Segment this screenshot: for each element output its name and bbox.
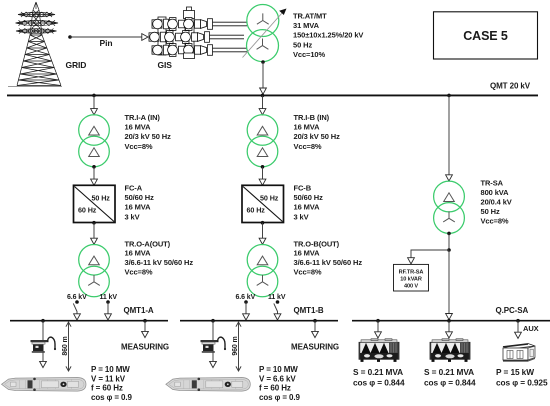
svg-text:60 Hz: 60 Hz (247, 206, 266, 215)
svg-text:cos φ = 0.844: cos φ = 0.844 (424, 378, 476, 388)
node 11 kV A (106, 300, 110, 304)
wire TR.I-B to FC-B (262, 167, 264, 180)
frequency converter FC-B (242, 185, 284, 222)
svg-text:Vcc=8%: Vcc=8% (481, 216, 509, 225)
bus QMT1-B (180, 320, 338, 322)
node TR.I-A out (92, 165, 96, 169)
node measuring A (143, 319, 147, 323)
transformer TR.I-B (247, 115, 278, 167)
switch 6.6 kV A open (73, 303, 77, 314)
wire measuring B (314, 321, 316, 332)
svg-text:MEASURING: MEASURING (291, 343, 339, 352)
ship load A (2, 378, 87, 392)
TR.O-A value label (125, 239, 194, 276)
node bus tap A (92, 94, 96, 98)
node FC-A out (92, 221, 96, 225)
svg-text:TR-SA: TR-SA (481, 178, 504, 187)
svg-text:Vcc=8%: Vcc=8% (125, 268, 153, 277)
svg-text:Vcc=8%: Vcc=8% (125, 142, 153, 151)
svg-text:Q.PC-SA: Q.PC-SA (496, 306, 529, 315)
svg-text:FC-B: FC-B (294, 184, 312, 193)
chiller 1 values (353, 367, 405, 388)
svg-text:16 MVA: 16 MVA (125, 123, 152, 132)
svg-text:20/3 kV 50 Hz: 20/3 kV 50 Hz (125, 132, 172, 141)
svg-text:16 MVA: 16 MVA (294, 123, 321, 132)
svg-text:GIS: GIS (158, 60, 173, 70)
node ship feeder A (41, 319, 45, 323)
node ship feeder B (211, 319, 215, 323)
transformer TR.AT/MT (243, 5, 287, 62)
TR.AT/MT value label (293, 12, 363, 60)
wire FC-A to TR.O-A (93, 223, 95, 239)
wire junction to RF.TR-SA (411, 250, 449, 259)
svg-text:3/6.6-11 kV 50/60 Hz: 3/6.6-11 kV 50/60 Hz (294, 258, 363, 267)
svg-text:TR.I-B (IN): TR.I-B (IN) (294, 113, 330, 122)
svg-text:CASE 5: CASE 5 (463, 29, 508, 43)
chiller 2 values (424, 367, 476, 388)
node 11 kV B (276, 300, 280, 304)
wire TR.AT/MT to bus (262, 62, 264, 89)
svg-text:GRID: GRID (66, 60, 87, 70)
svg-text:6.6 kV: 6.6 kV (236, 294, 256, 301)
svg-text:f = 60 Hz: f = 60 Hz (259, 384, 291, 393)
svg-text:50/60 Hz: 50/60 Hz (125, 193, 155, 202)
svg-text:16 MVA: 16 MVA (294, 249, 321, 258)
transformer TR.I-A (79, 115, 110, 167)
svg-text:P = 15 kW: P = 15 kW (496, 367, 534, 377)
bus QMT1-A (10, 320, 168, 322)
wire bus to ship B (212, 321, 214, 362)
transmission tower GRID (16, 2, 62, 86)
svg-text:800 kVA: 800 kVA (481, 188, 510, 197)
cable reel crane B (201, 337, 227, 353)
TR.O-B value label (294, 239, 363, 276)
svg-text:6.6 kV: 6.6 kV (67, 294, 87, 301)
dimension 960 m (232, 322, 241, 371)
svg-text:V = 6.6 kV: V = 6.6 kV (259, 374, 296, 383)
node bus tap B (261, 94, 265, 98)
svg-text:10 kVAR: 10 kVAR (400, 277, 422, 283)
frequency converter FC-A (74, 185, 116, 222)
wire Pin arrow (70, 36, 142, 38)
svg-text:P = 10 MW: P = 10 MW (259, 365, 298, 374)
svg-text:Vcc=8%: Vcc=8% (294, 142, 322, 151)
svg-text:3/6.6-11 kV 50/60 Hz: 3/6.6-11 kV 50/60 Hz (125, 258, 194, 267)
node TR.I-B out (261, 165, 265, 169)
transformer TR.O-B (247, 244, 278, 296)
wire FC-B to TR.O-B (262, 223, 264, 239)
wire 11 kV A to bus (107, 302, 109, 315)
node Pin (68, 35, 72, 39)
wire bus to TR.I-B (262, 96, 264, 110)
svg-text:cos φ = 0.925: cos φ = 0.925 (496, 378, 548, 388)
wire TR.I-A to FC-A (93, 167, 95, 180)
wire chiller 1 (377, 321, 379, 333)
svg-text:Vcc=8%: Vcc=8% (294, 268, 322, 277)
building load AUX (503, 344, 535, 362)
node measuring B (313, 319, 317, 323)
switch 11 kV B open (274, 303, 278, 314)
wire AUX (517, 321, 519, 333)
svg-text:50 Hz: 50 Hz (293, 40, 312, 49)
svg-text:TR.AT/MT: TR.AT/MT (293, 12, 327, 21)
svg-text:50/60 Hz: 50/60 Hz (294, 193, 324, 202)
svg-text:cos φ = 0.9: cos φ = 0.9 (259, 393, 301, 402)
TR.I-B value label (294, 113, 341, 151)
svg-text:S = 0.21 MVA: S = 0.21 MVA (353, 367, 403, 377)
TR-SA value label (481, 178, 512, 225)
svg-text:960 m: 960 m (232, 336, 239, 355)
node bus tap SA (447, 94, 451, 98)
svg-text:f = 60 Hz: f = 60 Hz (91, 384, 123, 393)
wire chiller 2 (448, 321, 450, 333)
svg-text:3 kV: 3 kV (125, 212, 140, 221)
svg-text:50 Hz: 50 Hz (260, 193, 279, 202)
node RF junction (447, 248, 451, 252)
svg-text:400 V: 400 V (404, 283, 418, 289)
svg-text:V = 11 kV: V = 11 kV (91, 374, 126, 383)
svg-text:Pin: Pin (100, 38, 113, 48)
svg-text:60 Hz: 60 Hz (78, 206, 97, 215)
svg-text:cos φ = 0.844: cos φ = 0.844 (353, 378, 405, 388)
wire TR-SA to junction (448, 233, 450, 250)
transformer TR.O-A (79, 244, 110, 296)
svg-text:QMT1-A: QMT1-A (124, 306, 154, 315)
svg-text:RF.TR-SA: RF.TR-SA (399, 270, 424, 276)
bus QMT 20 kV (7, 94, 538, 96)
svg-text:16 MVA: 16 MVA (294, 203, 321, 212)
wire bus to ship A (42, 321, 44, 362)
svg-text:860 m: 860 m (62, 336, 69, 355)
chiller load 1 (359, 339, 399, 362)
wire measuring A (144, 321, 146, 332)
TR.I-A value label (125, 113, 172, 151)
node 6.6 kV A (75, 300, 79, 304)
cable reel crane A (31, 337, 57, 353)
chiller load 2 (430, 339, 470, 362)
svg-text:MEASURING: MEASURING (121, 343, 169, 352)
wire bus to TR.I-A (93, 96, 95, 110)
CASE 5 box (434, 12, 538, 59)
tap changer arrow (243, 13, 283, 58)
ship B values (259, 365, 301, 402)
svg-text:150±10x1.25%/20 kV: 150±10x1.25%/20 kV (293, 31, 363, 40)
node chiller 1 (376, 319, 380, 323)
capacitor bank RF.TR-SA (394, 264, 429, 291)
svg-text:FC-A: FC-A (125, 184, 143, 193)
ground line under tower (8, 86, 62, 88)
ship A values (91, 365, 133, 402)
svg-text:S = 0.21 MVA: S = 0.21 MVA (424, 367, 474, 377)
svg-text:20/3 kV 50 Hz: 20/3 kV 50 Hz (294, 132, 341, 141)
svg-text:31 MVA: 31 MVA (293, 21, 320, 30)
node AUX (516, 319, 520, 323)
bus Q.PC-SA (352, 320, 550, 322)
svg-text:16 MVA: 16 MVA (125, 249, 152, 258)
wire junction to Q.PC-SA bus (448, 250, 450, 314)
svg-text:20/0.4 kV: 20/0.4 kV (481, 197, 512, 206)
wire bus to TR-SA (448, 96, 450, 176)
node FC-B out (261, 221, 265, 225)
GIS switchgear (149, 7, 247, 59)
svg-text:50 Hz: 50 Hz (92, 193, 111, 202)
dimension 860 m (62, 322, 71, 371)
FC-A value label (125, 184, 155, 222)
svg-text:QMT 20 kV: QMT 20 kV (490, 82, 531, 91)
svg-text:TR.I-A (IN): TR.I-A (IN) (125, 113, 161, 122)
AUX values (496, 367, 548, 388)
svg-text:Vcc=10%: Vcc=10% (293, 50, 325, 59)
svg-text:AUX: AUX (523, 324, 539, 333)
svg-text:cos φ = 0.9: cos φ = 0.9 (91, 393, 133, 402)
node 6.6 kV B (244, 300, 248, 304)
svg-text:TR.O-B(OUT): TR.O-B(OUT) (294, 239, 340, 248)
svg-text:50 Hz: 50 Hz (481, 207, 500, 216)
svg-text:11 kV: 11 kV (100, 294, 118, 301)
svg-text:TR.O-A(OUT): TR.O-A(OUT) (125, 239, 171, 248)
node chiller 2 (447, 319, 451, 323)
svg-text:16 MVA: 16 MVA (125, 203, 152, 212)
node TR-SA out (447, 232, 451, 236)
transformer TR-SA (434, 181, 465, 233)
ship load B (166, 378, 251, 392)
wire 6.6 kV B to bus (245, 302, 247, 315)
svg-text:P = 10 MW: P = 10 MW (91, 365, 130, 374)
svg-text:3 kV: 3 kV (294, 212, 309, 221)
node TR.AT/MT secondary (261, 60, 265, 64)
FC-B value label (294, 184, 324, 222)
svg-text:11 kV: 11 kV (268, 294, 286, 301)
svg-text:QMT1-B: QMT1-B (294, 306, 324, 315)
